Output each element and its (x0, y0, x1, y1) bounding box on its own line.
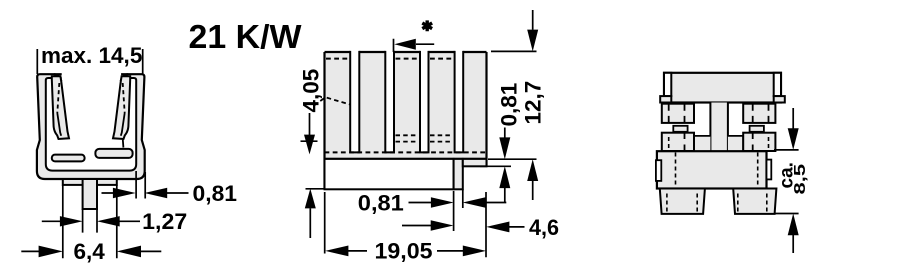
dim 0,81 wall (136, 171, 145, 199)
clip arm right (113, 76, 130, 139)
pin shoulder step (463, 159, 487, 166)
arrowheads left view (113, 188, 136, 198)
lower milled recess (325, 159, 454, 189)
star arrowhead (394, 39, 416, 50)
dim 1,27 dimension lines (42, 220, 140, 222)
4,6 arrowhead (486, 222, 509, 233)
ca. 8,5 arrowhead down (788, 128, 799, 150)
dim 0,81 pin dimension lines (409, 202, 507, 204)
left notch (656, 160, 661, 181)
right cluster lower box (743, 133, 775, 151)
mounting boss (63, 179, 117, 185)
right shoulder (774, 96, 785, 102)
0,81 pin arrowheads (431, 197, 454, 207)
fin tops (325, 51, 487, 53)
svg-text:4,6: 4,6 (529, 215, 559, 240)
0,81 step arrowheads (499, 137, 510, 159)
heatsink body outline (37, 74, 145, 179)
base bottom line (325, 158, 487, 160)
svg-text:1,27: 1,27 (142, 209, 187, 234)
ca. 8,5 arrowhead up (788, 214, 799, 236)
left cluster upper box (662, 104, 694, 123)
inner cavity (46, 78, 136, 171)
svg-text:6,4: 6,4 (74, 239, 106, 264)
svg-text:12,7: 12,7 (521, 81, 546, 125)
dim ca. 8,5 upper extension and dimension line (774, 108, 799, 150)
dim 4,6 (402, 226, 525, 227)
svg-text:4,05: 4,05 (299, 69, 324, 113)
fin4 hidden top dash (430, 58, 453, 60)
right cluster upper box (743, 104, 775, 123)
svg-text:0,81: 0,81 (358, 191, 404, 216)
top opening (62, 68, 121, 80)
fin1 hidden top dash (326, 58, 349, 60)
dim ca. 8,5 lower extension and dimension line (774, 214, 799, 254)
clip arm right hidden edge (123, 83, 125, 113)
dim max 14,5 extension lines (37, 49, 142, 74)
bottom foot right (733, 189, 776, 214)
star leader (394, 39, 435, 52)
clip arm left hidden edge (57, 83, 59, 113)
right cluster small box (750, 126, 764, 132)
left cluster lower box (662, 133, 694, 151)
dim 0,81 base step (480, 128, 511, 203)
right cluster bg (728, 136, 743, 152)
svg-text:21 K/W: 21 K/W (189, 19, 302, 56)
dim 1,27 pin (83, 209, 97, 233)
middle band hidden lines (676, 153, 758, 189)
ledge bar right (95, 149, 132, 158)
solder pin side view (454, 159, 463, 189)
svg-text:8,5: 8,5 (792, 164, 809, 195)
4,6 left arrowhead (431, 220, 454, 230)
dim 0,81 pin ext lines (454, 189, 463, 231)
19,05 arrowheads (325, 246, 348, 257)
dim 19,05 dimension lines (348, 250, 463, 252)
middle band (657, 151, 767, 188)
right end fin tab (774, 73, 781, 96)
horn arc right (121, 74, 128, 81)
dim 4,05 (301, 113, 325, 238)
clip arm left (52, 76, 69, 139)
hidden slot bottom line (325, 151, 487, 153)
top section (664, 73, 781, 103)
4,05 arrowheads (304, 135, 315, 155)
right pin tab (767, 160, 772, 180)
left cluster bg (694, 136, 710, 152)
12,7 arrowheads (527, 30, 538, 52)
svg-text:0,81: 0,81 (497, 83, 522, 127)
horn arc left (54, 74, 61, 81)
star symbol (422, 20, 432, 31)
dim 6,4 boss (63, 185, 117, 258)
fin3 hidden top dash (396, 58, 419, 60)
hidden hole edges fin3 (396, 135, 419, 141)
svg-text:0,81: 0,81 (193, 181, 238, 206)
finned body block (325, 52, 487, 159)
left end fin tab (664, 73, 671, 96)
leader dashes fin1 (314, 97, 350, 105)
fin slots (350, 51, 359, 152)
body left edge (323, 52, 325, 189)
svg-text:max. 14,5: max. 14,5 (41, 43, 142, 68)
body right edge (485, 52, 487, 166)
bottom foot left (660, 189, 705, 214)
solder pin (83, 179, 97, 209)
svg-text:19,05: 19,05 (375, 239, 433, 264)
left shoulder (660, 96, 671, 102)
dim 19,05 ext lines (325, 192, 486, 257)
dim 0,81 wall dimension lines (102, 192, 189, 194)
dim 6,4 dimension lines (21, 250, 161, 252)
hidden hole edges fin4 (430, 135, 453, 141)
center stem (710, 103, 728, 152)
ledge bar left (52, 155, 85, 162)
dim 12,7 (488, 10, 537, 200)
left cluster small box (673, 126, 687, 132)
